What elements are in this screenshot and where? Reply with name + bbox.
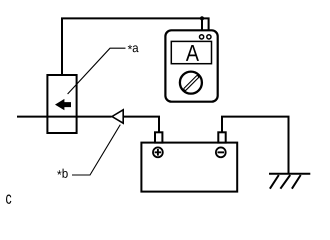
ammeter dial — [180, 72, 202, 94]
ammeter terminal right — [207, 35, 211, 39]
ammeter dial slot — [183, 75, 199, 91]
wire ammeter left terminal drop — [201, 18, 203, 34]
label c — [6, 195, 11, 204]
main horizontal wire (left segment to triangle tip) — [17, 116, 112, 118]
battery body — [141, 143, 237, 192]
battery positive post — [155, 132, 162, 142]
junction dot — [200, 16, 204, 20]
battery negative post — [218, 132, 225, 142]
ammeter terminal left — [200, 35, 204, 39]
battery plus symbol — [153, 147, 163, 157]
label *a — [128, 45, 139, 52]
wire battery negative to ground — [222, 117, 289, 174]
ammeter label A — [186, 45, 199, 61]
battery minus symbol — [216, 147, 226, 157]
leader line *a — [68, 48, 126, 94]
ground symbol — [269, 173, 310, 175]
ammeter display window — [171, 41, 211, 63]
arrow inside box — [55, 99, 71, 110]
wire from box top to ammeter terminals (top route) — [62, 18, 209, 75]
leader line *b — [72, 125, 120, 175]
ammeter U1 body — [165, 30, 217, 101]
connector triangle *b — [112, 110, 123, 123]
label *b — [57, 169, 68, 178]
component box *a — [47, 75, 76, 133]
wire triangle to battery positive post — [123, 117, 159, 133]
